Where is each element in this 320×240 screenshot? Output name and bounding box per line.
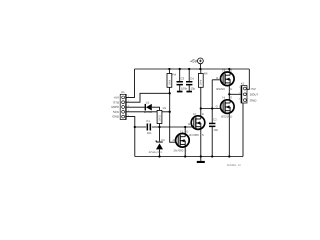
svg-text:T4: T4 [222,95,226,99]
svg-text:1: 1 [239,86,241,89]
svg-text:GND: GND [112,115,120,119]
svg-text:100k: 100k [200,79,203,85]
svg-text:100Ω: 100Ω [158,115,161,121]
svg-text:G: G [173,138,175,142]
svg-text:T2: T2 [193,112,197,116]
svg-text:2N7000: 2N7000 [189,133,199,137]
svg-text:110468 - 11: 110468 - 11 [227,164,241,167]
svg-text:D: D [230,115,232,119]
svg-text:C4: C4 [190,76,194,80]
svg-text:C1: C1 [146,119,150,123]
svg-text:2N7000: 2N7000 [174,149,184,153]
svg-text:GND: GND [250,98,257,102]
svg-text:DOUT: DOUT [250,93,259,97]
svg-text:BS250: BS250 [216,87,225,91]
svg-text:3: 3 [239,98,241,101]
svg-text:T1: T1 [180,129,184,133]
svg-text:S: S [185,149,187,153]
svg-text:K1: K1 [121,90,125,94]
svg-text:D1: D1 [146,100,150,104]
svg-text:+5V: +5V [190,59,198,64]
svg-text:T3: T3 [222,68,226,72]
svg-text:C2: C2 [213,118,217,122]
svg-text:C3: C3 [181,76,185,80]
svg-text:R4: R4 [173,72,177,76]
svg-text:10n: 10n [214,128,219,132]
svg-text:S: S [230,95,232,99]
svg-text:D: D [202,112,204,116]
svg-text:STB: STB [113,100,119,104]
svg-text:10µ: 10µ [191,87,196,91]
svg-text:100n: 100n [181,87,188,91]
svg-text:D: D [230,87,232,91]
svg-text:G: G [188,122,190,126]
svg-text:G: G [216,76,218,80]
svg-text:D2: D2 [161,138,165,142]
svg-text:R1: R1 [163,106,167,110]
svg-text:BZV85-C5V1: BZV85-C5V1 [149,151,163,154]
svg-text:+5V: +5V [250,87,255,91]
svg-text:100k: 100k [168,79,171,85]
svg-text:BS250: BS250 [221,115,230,119]
svg-text:S: S [230,68,232,72]
svg-text:D: D [186,129,188,133]
svg-text:R6: R6 [204,72,208,76]
svg-text:+5V: +5V [114,96,119,100]
svg-text:K2: K2 [241,82,245,86]
svg-text:S: S [202,133,204,137]
svg-text:BAT85: BAT85 [144,110,153,114]
svg-text:MOSI: MOSI [111,105,119,109]
svg-text:10n: 10n [147,131,152,135]
svg-text:SCK: SCK [113,110,119,114]
svg-text:G: G [216,104,218,108]
